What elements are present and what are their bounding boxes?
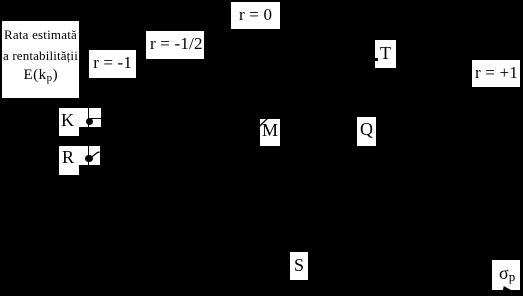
point T marker notch [375,58,378,61]
axis label box: Rata estimata a rentabilitatii E(kp) [2,21,79,98]
point K label box [59,108,79,136]
text sigma-p [499,264,515,286]
letter Q [360,120,373,138]
text r = -1 [93,54,132,71]
point Q label box [357,117,376,146]
axis label line 1 [4,28,77,41]
axis label line 3: E(kp) [24,68,59,86]
point M label box [260,119,280,146]
text r = +1 [475,64,518,81]
point K dot [86,118,93,125]
point K marker patch [79,108,101,127]
axis label line 2 [3,49,78,62]
point R vertical wire [88,146,89,165]
label box r = -1 [89,50,136,78]
letter T [380,44,391,62]
letter R [62,148,74,166]
point R diagonal wire [79,146,100,165]
letter K [61,111,74,129]
diagonal wire through M box corner [260,119,280,146]
x-axis arrowhead notch [492,260,520,291]
point K horizontal wire [88,118,101,119]
point K vertical wire [88,108,89,127]
axis label box sigma-p [492,260,520,291]
text r = -1/2 [150,35,203,52]
label box r = +1 [472,60,520,87]
letter M [262,121,278,139]
point S label box [290,252,309,280]
label box r = -1/2 [146,31,204,59]
point R dot [85,155,92,162]
label box r = 0 [231,2,280,29]
point R label box [59,146,79,175]
text r = 0 [239,6,272,23]
point R marker patch [79,146,100,165]
letter S [294,256,304,274]
point T label box [375,40,396,68]
